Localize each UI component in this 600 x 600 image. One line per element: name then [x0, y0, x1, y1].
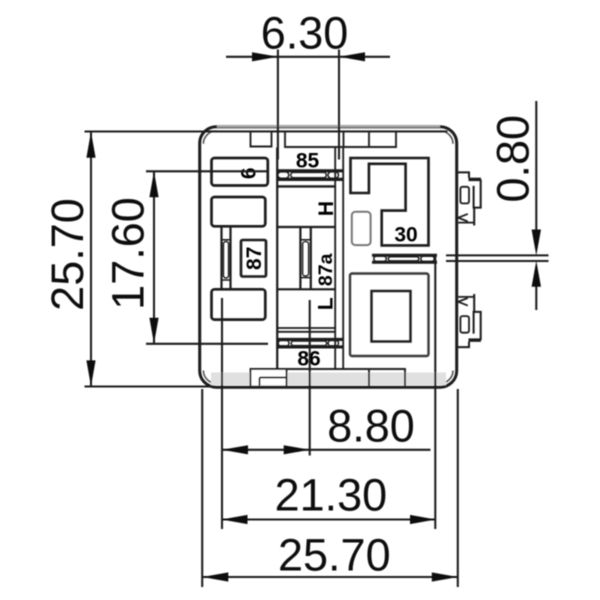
dimension 21.30 left extension line: [221, 298, 223, 529]
divider below 87a section: [277, 288, 335, 290]
body corner inner contour bottom-left: [203, 371, 216, 384]
body corner inner contour top-right: [440, 131, 453, 144]
dimension 8.80 extension line center: [309, 300, 311, 456]
terminal 87 vertical slot walls: [222, 226, 231, 289]
center column right wall: [334, 148, 336, 370]
divider pair below L: [277, 328, 335, 332]
cavity 6 box: [212, 158, 268, 186]
cavity bottom-right outer: [350, 274, 429, 357]
dimension 8.80 arrows: [222, 445, 310, 454]
dimension 8.80 text: [327, 401, 415, 452]
terminal 87a blade bar: [303, 242, 309, 276]
dimension 0.80 arrows: [532, 230, 541, 287]
top rib notch A: [251, 132, 272, 147]
terminal 87 slot cross ticks: [222, 240, 231, 280]
label 86: [297, 347, 320, 370]
label 30: [394, 224, 417, 247]
terminal 85 slot band: [277, 171, 344, 180]
svg-text:87: 87: [243, 247, 266, 270]
svg-text:8.80: 8.80: [327, 401, 415, 452]
dimension 25.70 left extension lines: [85, 132, 214, 387]
svg-text:25.70: 25.70: [42, 198, 93, 311]
body top inner edge line: [210, 130, 448, 132]
svg-text:17.60: 17.60: [103, 197, 154, 310]
svg-text:85: 85: [296, 150, 320, 173]
small key rect in 30 cavity: [352, 212, 371, 245]
body corner inner contour bottom-right: [440, 371, 453, 384]
svg-text:21.30: 21.30: [275, 470, 388, 521]
dimension 25.70 left line: [90, 132, 92, 387]
terminal 86 slot openings: [278, 341, 338, 346]
svg-text:L: L: [315, 297, 338, 310]
dimension 25.70 bottom extension lines: [202, 389, 458, 587]
cavity upper-left rect: [212, 197, 266, 226]
body bottom inner grey band: [211, 373, 446, 386]
label H (rotated): [315, 201, 338, 216]
dimension 17.60 arrows: [149, 171, 158, 343]
dimension 17.60 text: [103, 197, 154, 310]
label 87a (rotated): [315, 253, 337, 286]
svg-text:87a: 87a: [315, 253, 337, 286]
svg-text:H: H: [315, 201, 338, 216]
svg-text:30: 30: [394, 224, 417, 247]
divider below 85: [277, 185, 335, 187]
dimension 8.80 line: [222, 449, 431, 451]
terminal 30 side slot band: [372, 255, 437, 262]
terminal 87a vertical slot walls: [300, 227, 310, 289]
dimension 25.70 bottom text: [278, 530, 391, 581]
dimension 25.70 bottom arrows: [202, 572, 457, 581]
relay body outline: [200, 127, 457, 388]
svg-text:0.80: 0.80: [488, 115, 539, 203]
top rib notch B: [285, 132, 396, 148]
dimension 17.60 extension lines: [146, 171, 268, 343]
right mounting tab bottom: [458, 294, 481, 347]
dimension 21.30 line: [222, 518, 437, 520]
label 87 (rotated): [243, 247, 266, 270]
cavity bottom-right inner: [372, 291, 411, 342]
dimension 21.30 arrows: [222, 515, 437, 524]
dimension 0.80 leader line: [535, 101, 537, 310]
cavity 87 box: [241, 240, 266, 277]
cavity 30 stepped outline: [351, 158, 429, 245]
divider below H: [277, 226, 335, 228]
dimension 17.60 line: [153, 171, 155, 343]
right block left wall: [342, 148, 344, 370]
label 85: [296, 150, 320, 173]
svg-text:6.30: 6.30: [261, 8, 349, 59]
right mounting tab top: [458, 172, 481, 225]
dimension 6.30 text: [261, 8, 349, 59]
label L (rotated): [315, 297, 338, 310]
dimension 0.80 feature lines: [446, 255, 549, 261]
body corner inner contour top-left: [203, 131, 216, 144]
terminal 87 blade bar: [223, 242, 228, 279]
dimension 25.70 bottom line: [202, 576, 457, 578]
dimension 6.30 line: [226, 56, 390, 58]
terminal 30 side slot openings: [374, 256, 435, 261]
svg-text:25.70: 25.70: [278, 530, 391, 581]
dimension 21.30 text: [275, 470, 388, 521]
svg-text:6: 6: [238, 167, 261, 179]
center column left wall: [276, 148, 278, 370]
bottom rib line: [251, 369, 406, 386]
bottom step notch: [252, 370, 286, 385]
dimension 21.30 right extension line: [434, 256, 436, 529]
terminal 86 slot band: [277, 339, 344, 347]
body top outer edge lightening: [217, 125, 440, 127]
terminal 85 slot openings: [278, 172, 339, 178]
terminal 87a slot cross ticks: [300, 240, 310, 278]
dimension 25.70 left text: [42, 198, 93, 311]
dimension 0.80 text: [488, 115, 539, 203]
cavity lower-left rect: [212, 289, 266, 319]
dimension 6.30 arrows: [252, 52, 365, 61]
label 6 (rotated): [238, 167, 261, 179]
dimension 6.30 extension lines: [278, 50, 339, 160]
dimension 25.70 left arrows: [86, 132, 95, 387]
